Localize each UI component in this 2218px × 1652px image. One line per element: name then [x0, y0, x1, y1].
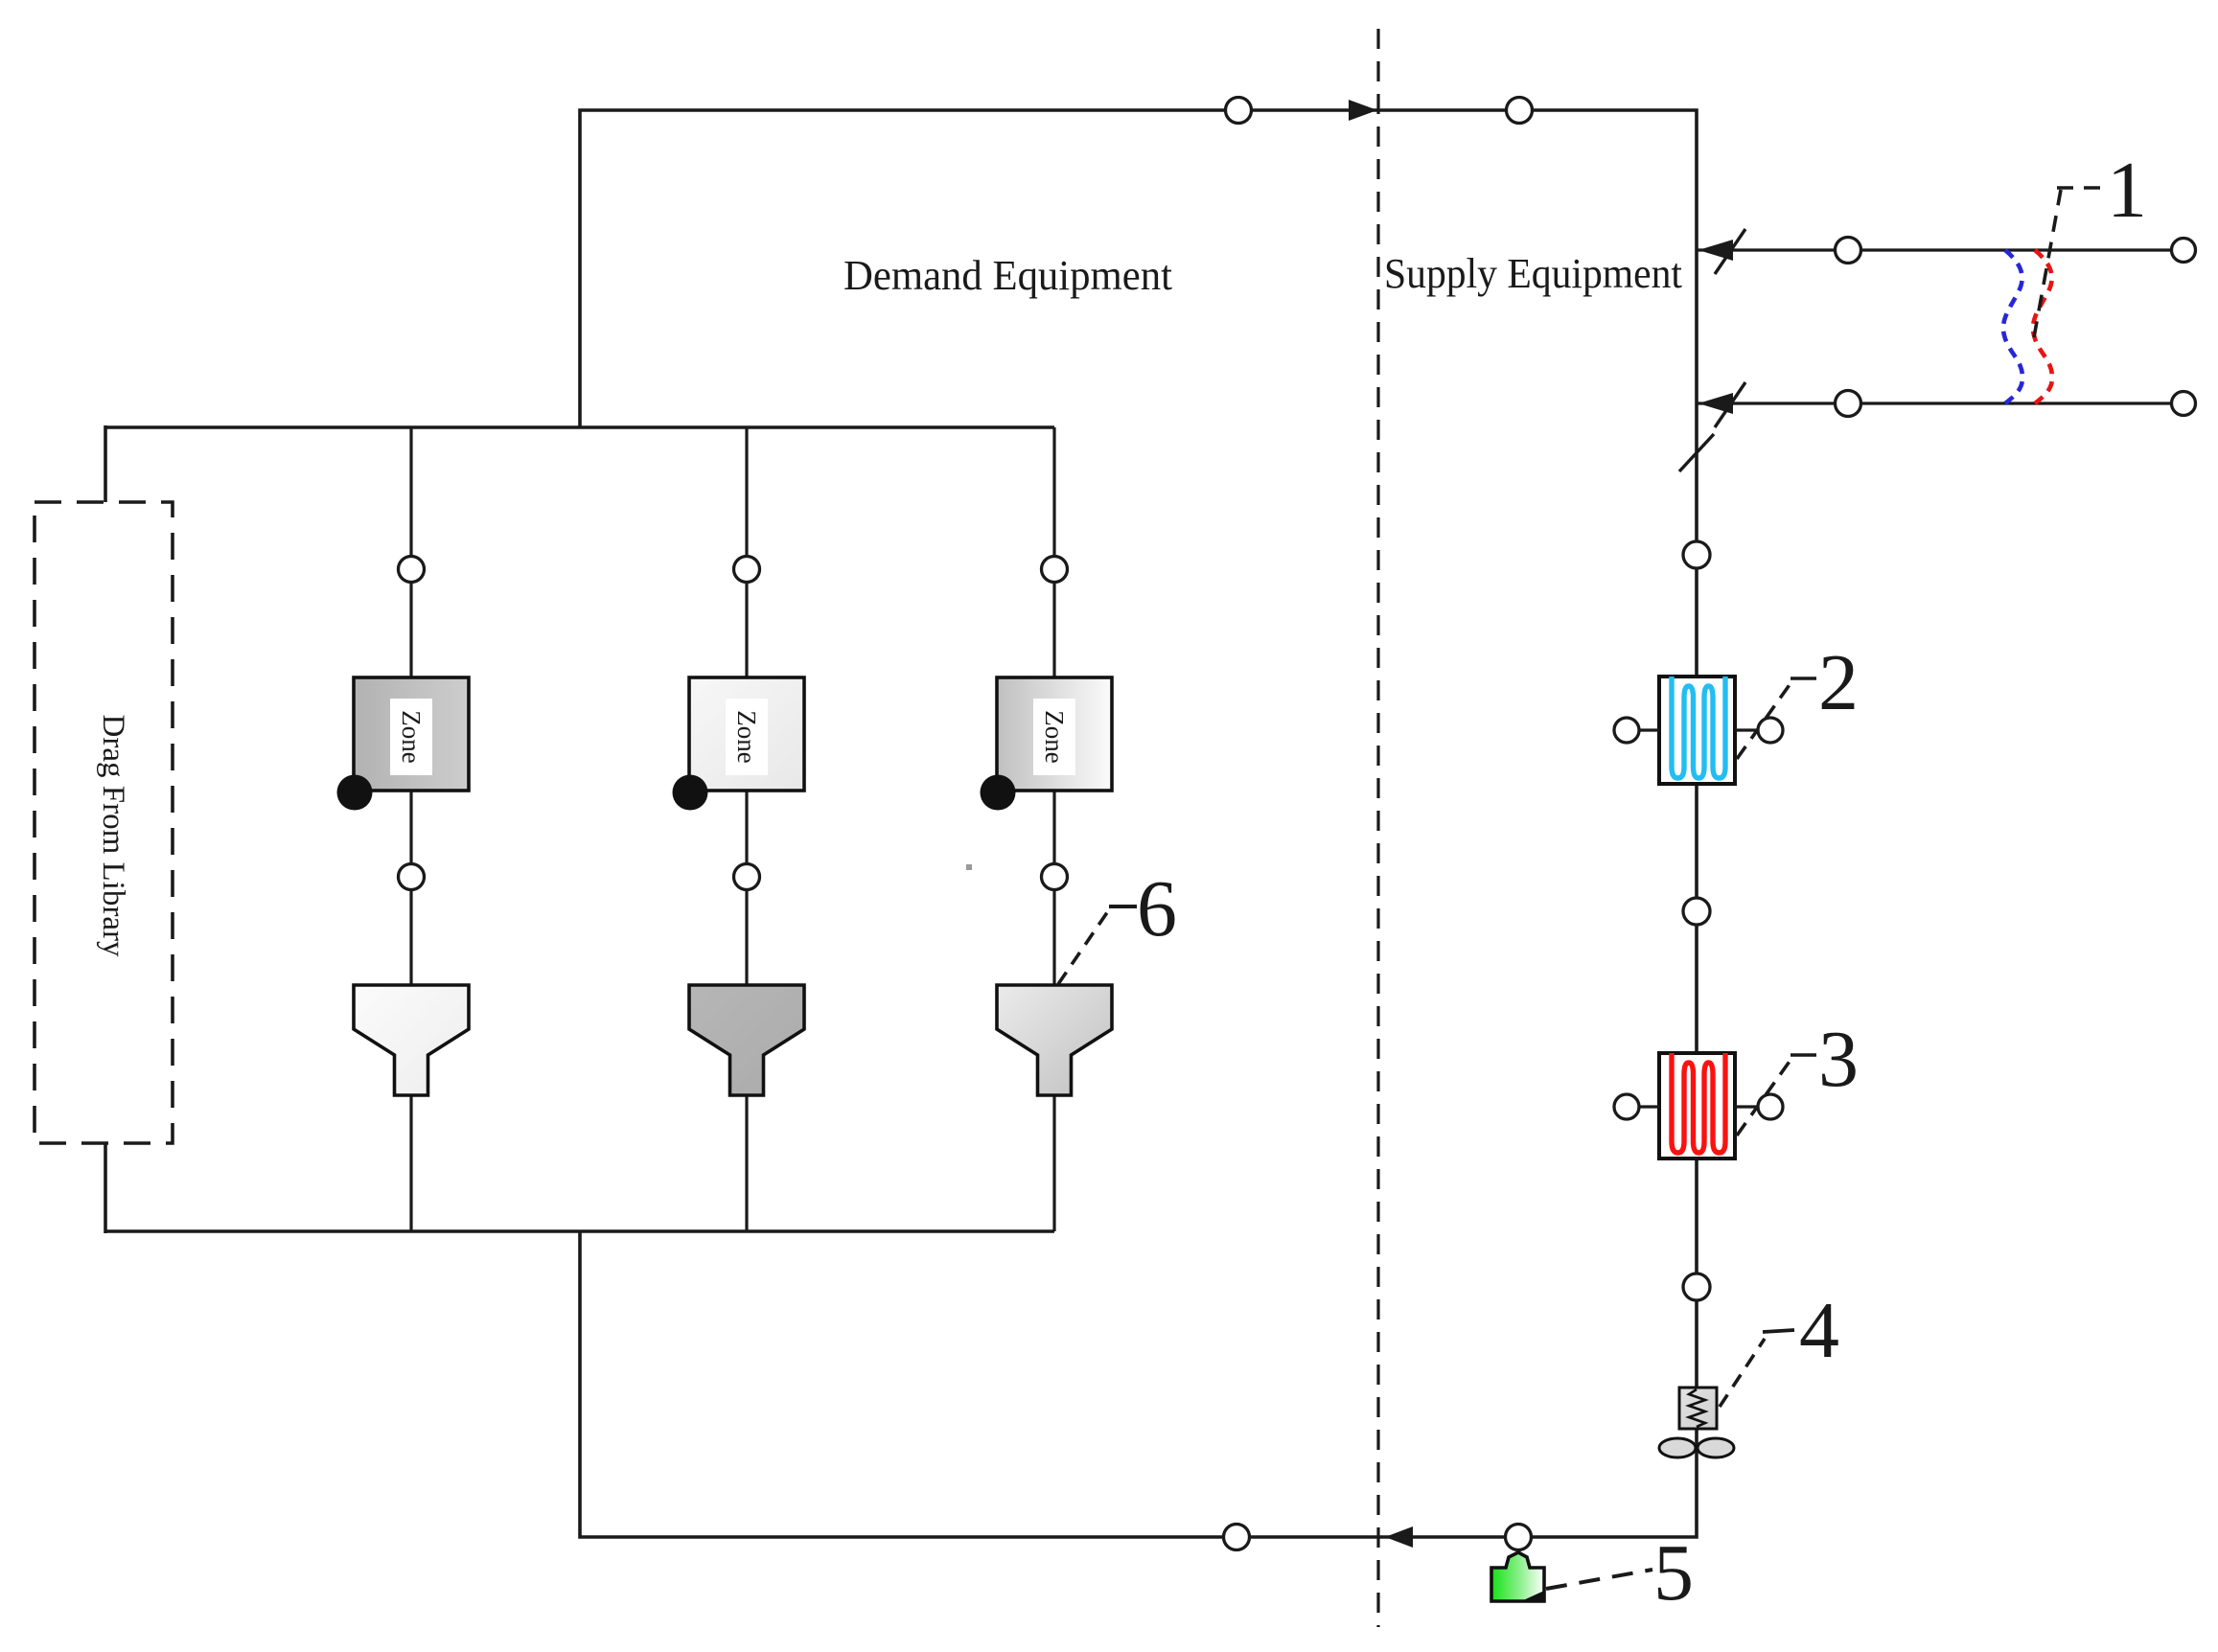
node: above fan	[1683, 1273, 1710, 1300]
leader line to label 2	[1737, 679, 1793, 759]
blue wavy break symbol	[2003, 250, 2022, 403]
artifact dot	[966, 864, 972, 870]
svg-text:Zone: Zone	[732, 710, 761, 763]
svg-text:6: 6	[1137, 864, 1177, 953]
air terminal unit 3	[997, 985, 1112, 1095]
node: between coils	[1683, 898, 1710, 925]
fan (4) blades	[1659, 1438, 1734, 1457]
leader elbow to label 3	[1791, 1053, 1816, 1057]
node: supply return inlet on bottom line	[1506, 1525, 1532, 1550]
divider dashed line between demand and supply	[1376, 29, 1379, 1627]
svg-text:Supply Equipment: Supply Equipment	[1384, 250, 1682, 297]
svg-text:Drag From Library: Drag From Library	[96, 715, 130, 957]
node: above cooling coil	[1683, 541, 1710, 568]
node: zone 3 return dot	[981, 775, 1016, 811]
outdoor air line 2 (intake)	[1697, 402, 2183, 404]
arrow: OA line 1 into supply duct	[1698, 229, 1745, 274]
air terminal unit 1	[354, 985, 469, 1095]
node: heating coil water outlet	[1758, 1094, 1783, 1119]
svg-text:Zone: Zone	[397, 710, 426, 763]
node: zone 1 return dot	[337, 775, 373, 811]
arrow: return flow into supply side (bottom)	[1385, 1526, 1413, 1548]
node: supply outlet on top line	[1226, 98, 1252, 124]
wire: main air loop outline	[580, 110, 1697, 1537]
arrow: OA line 2 into supply duct	[1698, 382, 1745, 427]
node: demand inlet on top line	[1507, 98, 1533, 124]
red wavy break symbol	[2033, 250, 2052, 403]
wire: zone branch 1	[409, 427, 412, 1231]
svg-text:2: 2	[1818, 638, 1859, 727]
node: branch 2 inlet	[734, 557, 760, 583]
zone box 2	[689, 677, 804, 791]
dashed box: Drag From Library	[35, 502, 173, 1143]
arrow: supply flow into demand side (top)	[1349, 100, 1377, 121]
leader line to label 5	[1546, 1570, 1652, 1589]
supply plant (5) green component	[1491, 1552, 1544, 1601]
leader line to label 3	[1737, 1056, 1793, 1136]
leader line to label 1	[2034, 188, 2105, 337]
node: OA line 2 end	[2172, 392, 2196, 416]
svg-text:3: 3	[1818, 1015, 1859, 1104]
wire: demand supply header	[105, 425, 1054, 429]
wire: header jog down to library box	[104, 425, 107, 502]
zone box 3	[997, 677, 1112, 791]
leader line to label 6	[1058, 906, 1137, 984]
node: cooling coil water inlet	[1614, 718, 1639, 743]
node: OA line 1 mid	[1836, 238, 1861, 264]
heating coil (3)	[1639, 1053, 1758, 1159]
wire: demand return header	[105, 1229, 1054, 1233]
node: OA line 2 mid	[1836, 391, 1861, 417]
node: heating coil water inlet	[1614, 1094, 1639, 1119]
slash mark on supply duct below OA mixer	[1679, 434, 1714, 471]
svg-text:5: 5	[1653, 1528, 1694, 1618]
outdoor air line 1 (relief)	[1697, 248, 2183, 251]
fan (4) motor box	[1679, 1388, 1717, 1429]
wire: zone branch 2	[745, 427, 748, 1231]
leader line to label 4	[1720, 1330, 1794, 1407]
node: branch 1 inlet	[399, 557, 425, 583]
zone box 1	[354, 677, 469, 791]
node: branch 3 inlet	[1042, 557, 1068, 583]
leader elbow to label 2	[1791, 677, 1816, 680]
node: cooling coil water outlet	[1758, 718, 1783, 743]
node: OA line 1 end	[2172, 239, 2196, 263]
node: zone 2 return dot	[673, 775, 708, 811]
cooling coil (2)	[1639, 677, 1758, 784]
svg-text:Demand Equipment: Demand Equipment	[843, 252, 1172, 299]
node: branch 2 zone outlet	[734, 864, 760, 890]
node: branch 3 zone outlet	[1042, 864, 1068, 890]
air terminal unit 2	[689, 985, 804, 1095]
svg-text:4: 4	[1799, 1286, 1839, 1375]
wire: zone branch 3	[1052, 427, 1055, 1231]
svg-text:Zone: Zone	[1040, 710, 1069, 763]
wire: library box to return header	[104, 1143, 107, 1233]
svg-text:1: 1	[2107, 146, 2147, 235]
node: demand return outlet on bottom line	[1224, 1525, 1250, 1550]
node: branch 1 zone outlet	[399, 864, 425, 890]
